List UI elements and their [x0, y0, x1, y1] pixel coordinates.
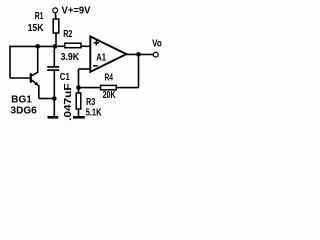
svg-text:C1: C1	[60, 72, 70, 83]
resistor R4	[101, 85, 117, 89]
svg-text:Vo: Vo	[152, 38, 162, 49]
svg-text:R1: R1	[35, 11, 44, 22]
svg-text:A1: A1	[96, 52, 106, 63]
svg-text:5.1K: 5.1K	[86, 108, 102, 119]
wire	[53, 70, 55, 116]
wire	[39, 98, 55, 100]
wire	[78, 69, 80, 93]
wire	[37, 46, 39, 72]
capacitor C1	[47, 67, 59, 70]
wire	[126, 53, 153, 55]
node junction	[76, 85, 81, 90]
wire	[9, 46, 11, 78]
node junction	[52, 96, 57, 101]
wire	[10, 77, 30, 79]
resistor R3	[76, 93, 81, 109]
wire	[10, 45, 56, 47]
svg-text:R4: R4	[105, 73, 114, 84]
wire	[55, 45, 66, 47]
svg-text:15K: 15K	[28, 23, 45, 34]
resistor R1	[53, 19, 59, 33]
op-amp A1	[90, 36, 126, 72]
node junction	[35, 44, 40, 49]
node junction	[136, 52, 141, 57]
ground	[73, 116, 85, 119]
transistor BG1	[31, 72, 39, 86]
ground	[48, 116, 59, 119]
svg-text:BG1: BG1	[11, 95, 32, 106]
wire	[54, 13, 56, 19]
svg-text:20K: 20K	[103, 90, 117, 101]
wire	[78, 109, 80, 117]
wire	[79, 87, 101, 89]
wire	[116, 87, 138, 89]
svg-text:R3: R3	[86, 97, 96, 108]
svg-text:R2: R2	[63, 29, 73, 40]
svg-text:V+=9V: V+=9V	[62, 6, 91, 17]
node junction	[53, 44, 58, 49]
terminal Vo	[153, 52, 158, 57]
wire	[55, 33, 57, 46]
wire	[79, 68, 91, 70]
resistor R2	[65, 43, 81, 48]
wire	[138, 54, 140, 87]
wire	[38, 85, 40, 99]
terminal V+	[53, 8, 58, 13]
wire	[81, 45, 90, 47]
svg-text:3DG6: 3DG6	[11, 106, 38, 117]
svg-text:3.9K: 3.9K	[61, 52, 80, 63]
wire	[53, 46, 55, 66]
svg-text:.047uF: .047uF	[63, 83, 74, 121]
